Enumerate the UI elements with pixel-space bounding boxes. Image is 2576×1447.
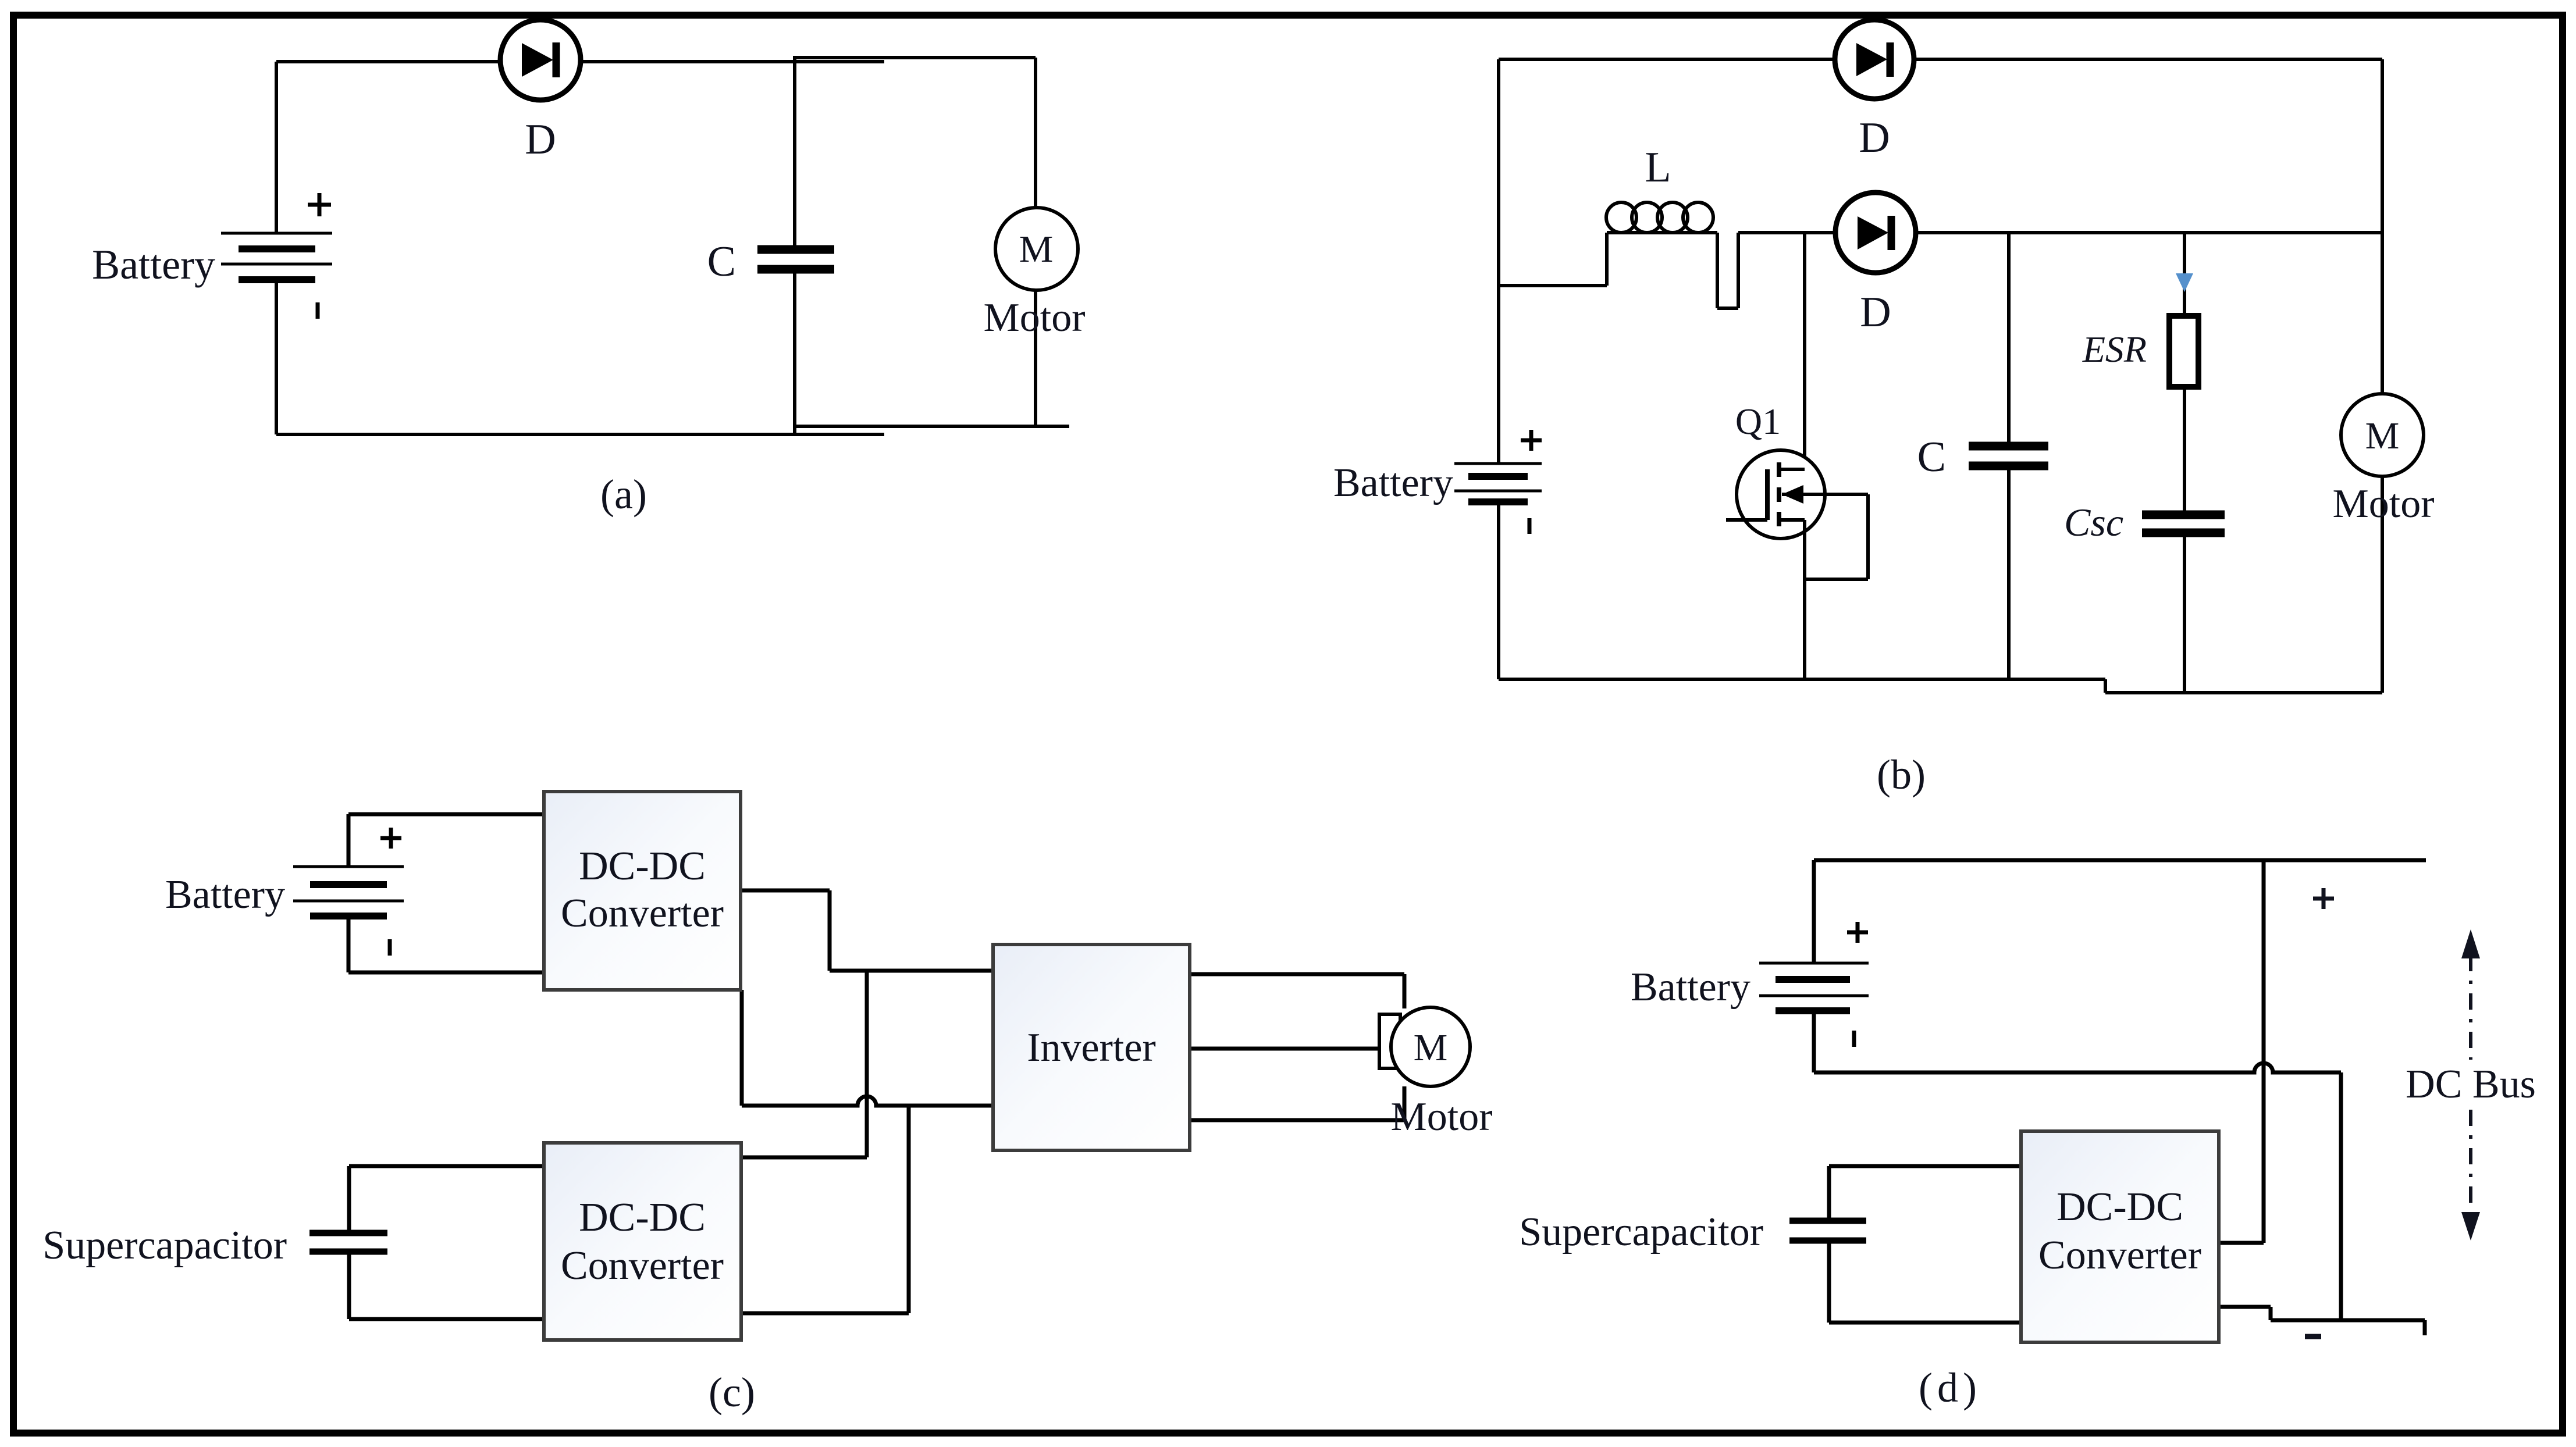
svg-text:Converter: Converter xyxy=(561,1243,724,1288)
svg-text:Converter: Converter xyxy=(2038,1233,2201,1278)
svg-text:(d): (d) xyxy=(1919,1364,1981,1411)
svg-text:Battery: Battery xyxy=(165,872,285,917)
svg-text:Inverter: Inverter xyxy=(1027,1025,1156,1070)
svg-text:Motor: Motor xyxy=(1391,1095,1493,1139)
svg-text:(a): (a) xyxy=(600,471,647,518)
svg-text:(b): (b) xyxy=(1877,751,1926,798)
svg-text:D: D xyxy=(525,116,556,163)
svg-text:DC-DC: DC-DC xyxy=(579,844,706,889)
svg-text:C: C xyxy=(707,238,736,286)
svg-text:Battery: Battery xyxy=(92,241,215,288)
svg-text:Motor: Motor xyxy=(984,295,1086,340)
svg-text:M: M xyxy=(1414,1027,1448,1069)
svg-text:Converter: Converter xyxy=(561,891,724,936)
svg-text:Battery: Battery xyxy=(1333,461,1453,505)
svg-text:M: M xyxy=(2365,415,2400,457)
svg-text:Supercapacitor: Supercapacitor xyxy=(42,1223,287,1268)
svg-text:DC Bus: DC Bus xyxy=(2406,1062,2536,1107)
svg-text:D: D xyxy=(1860,288,1891,336)
svg-text:(c): (c) xyxy=(709,1369,755,1416)
svg-text:Q1: Q1 xyxy=(1735,401,1781,442)
svg-text:C: C xyxy=(1917,433,1946,481)
svg-text:L: L xyxy=(1645,144,1671,191)
svg-text:Battery: Battery xyxy=(1631,965,1750,1010)
svg-text:DC-DC: DC-DC xyxy=(2056,1185,2183,1229)
svg-text:D: D xyxy=(1859,114,1890,162)
svg-text:Motor: Motor xyxy=(2333,482,2435,526)
svg-text:M: M xyxy=(1019,228,1054,270)
svg-text:Supercapacitor: Supercapacitor xyxy=(1519,1210,1763,1254)
svg-text:ESR: ESR xyxy=(2082,329,2147,370)
svg-text:DC-DC: DC-DC xyxy=(579,1195,706,1240)
svg-text:Csc: Csc xyxy=(2064,500,2123,544)
